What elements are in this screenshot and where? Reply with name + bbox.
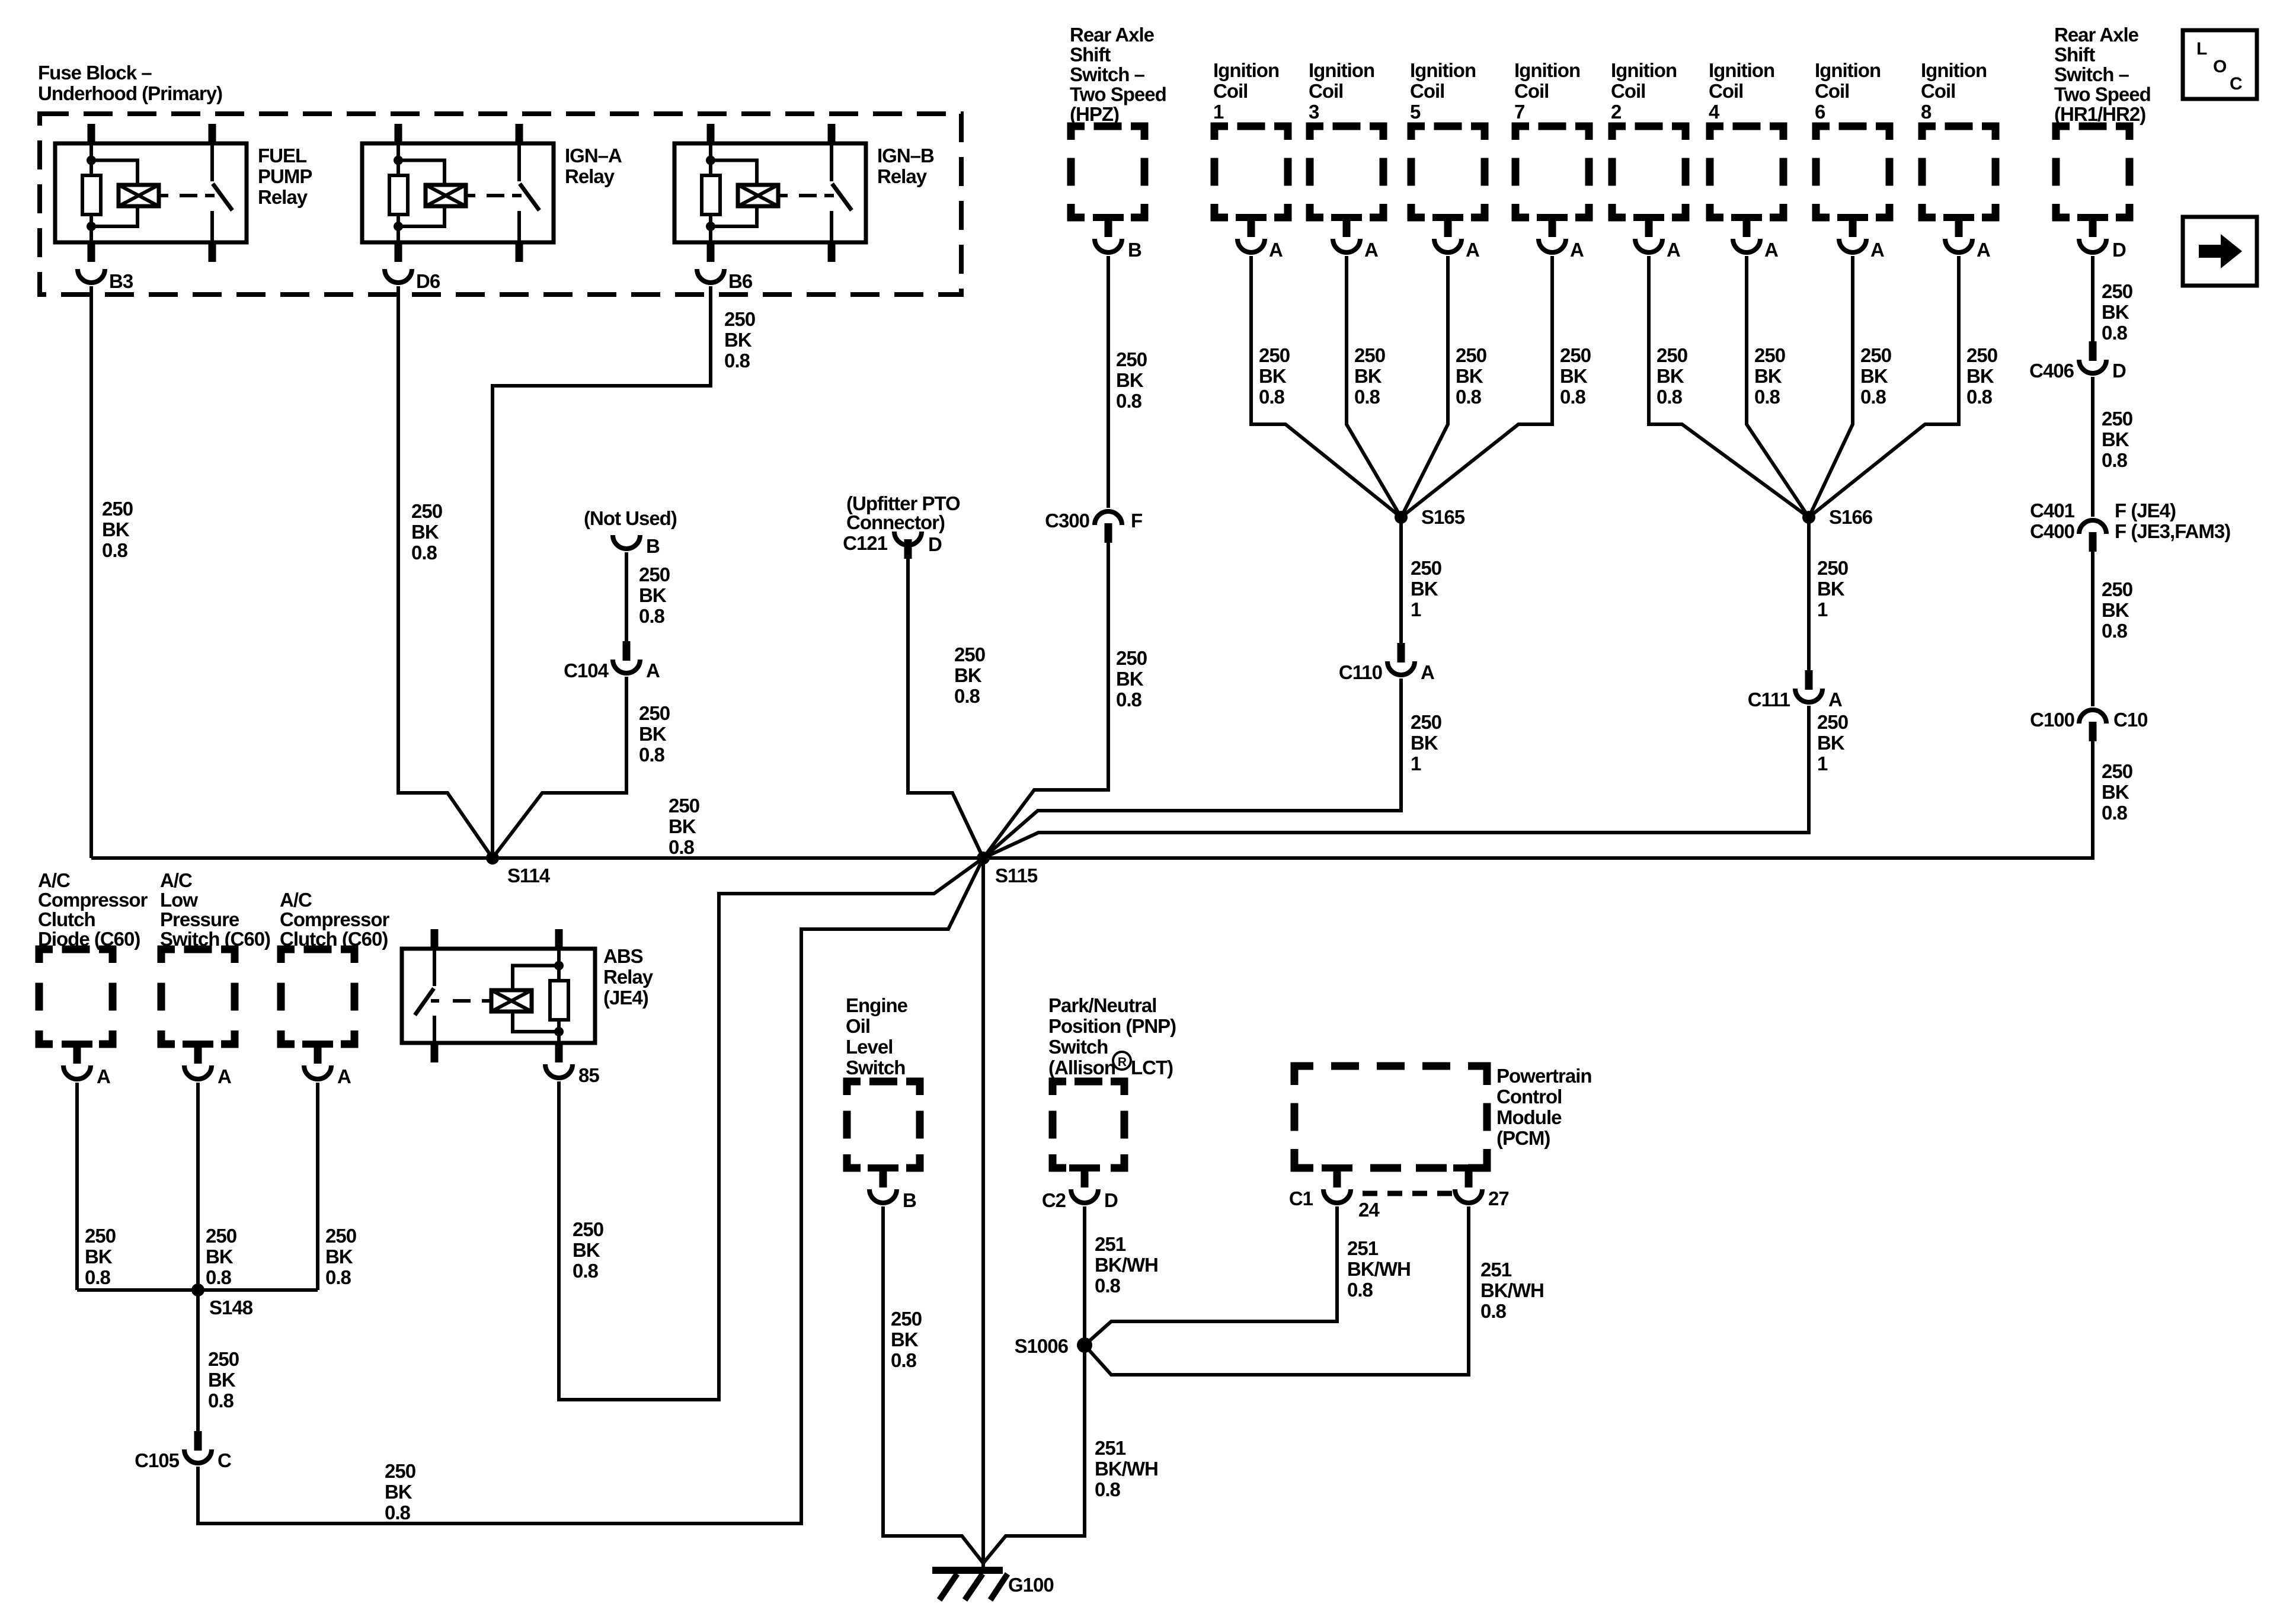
svg-text:BK/WH: BK/WH bbox=[1095, 1254, 1158, 1276]
svg-text:0.8: 0.8 bbox=[2102, 802, 2128, 824]
switch contact ABS relay bbox=[415, 949, 434, 1043]
svg-text:D: D bbox=[928, 533, 942, 555]
svg-text:BK/WH: BK/WH bbox=[1480, 1279, 1544, 1301]
svg-text:Switch –: Switch – bbox=[1070, 63, 1145, 85]
svg-text:Ignition: Ignition bbox=[1921, 59, 1987, 81]
wire HR-D to C406 bbox=[2091, 256, 2094, 341]
relay IGN-B coil branch wire bbox=[709, 143, 712, 175]
connector C1 pin 24 bbox=[1289, 1168, 1380, 1221]
svg-text:250: 250 bbox=[2102, 578, 2132, 600]
svg-text:C104: C104 bbox=[564, 660, 609, 681]
ignition coil 6 box bbox=[1816, 126, 1889, 221]
wire label 250 BK 0.8 (ABS) bbox=[573, 1218, 603, 1282]
svg-text:Relay: Relay bbox=[258, 186, 308, 208]
wire C400 to C100 bbox=[2091, 552, 2094, 706]
svg-text:1: 1 bbox=[1817, 753, 1828, 774]
wire S115 to G100 bbox=[981, 858, 985, 1570]
rear axle shift switch HR1/HR2 box bbox=[2056, 126, 2129, 221]
wire below ABS resistor bbox=[557, 1020, 561, 1043]
svg-text:IGN–A: IGN–A bbox=[565, 145, 622, 167]
svg-text:D: D bbox=[2112, 239, 2126, 261]
svg-text:0.8: 0.8 bbox=[1966, 386, 1993, 408]
svg-text:250: 250 bbox=[954, 644, 985, 665]
relay IGN-A top stub right bbox=[516, 124, 523, 143]
wire label 250 BK 0.8 (S148) bbox=[208, 1348, 239, 1411]
wire coil8 to S166 bbox=[1809, 256, 1959, 517]
svg-text:C1: C1 bbox=[1289, 1188, 1313, 1209]
ignition coil 4 box bbox=[1710, 126, 1783, 221]
svg-text:85: 85 bbox=[578, 1064, 599, 1086]
svg-text:Clutch (C60): Clutch (C60) bbox=[280, 928, 388, 950]
wire label 250 BK 0.8 (coil 5) bbox=[1456, 344, 1486, 408]
svg-text:S1006: S1006 bbox=[1015, 1335, 1069, 1357]
svg-text:0.8: 0.8 bbox=[1354, 386, 1380, 408]
svg-text:250: 250 bbox=[1411, 711, 1441, 733]
fuse block - underhood dashed box bbox=[40, 114, 961, 295]
svg-text:Coil: Coil bbox=[1921, 80, 1955, 102]
svg-text:Oil: Oil bbox=[846, 1015, 870, 1037]
svg-text:Engine: Engine bbox=[846, 994, 908, 1016]
svg-text:0.8: 0.8 bbox=[102, 539, 128, 561]
connector pin A (clutch) bbox=[304, 1044, 351, 1087]
relay IGN-B box bbox=[674, 143, 866, 242]
svg-text:250: 250 bbox=[1411, 557, 1441, 579]
svg-text:S115: S115 bbox=[995, 865, 1038, 886]
connector C100/C10 bbox=[2030, 709, 2147, 741]
svg-text:250: 250 bbox=[385, 1460, 415, 1482]
svg-text:0.8: 0.8 bbox=[639, 744, 665, 766]
wire coil7 to S165 bbox=[1401, 256, 1552, 517]
svg-text:0.8: 0.8 bbox=[954, 685, 980, 707]
svg-text:A: A bbox=[646, 660, 660, 681]
svg-text:250: 250 bbox=[1817, 711, 1848, 733]
svg-text:Position (PNP): Position (PNP) bbox=[1048, 1015, 1176, 1037]
wire label 250 BK 0.8 (coil 8) bbox=[1966, 344, 1997, 408]
svg-text:BK: BK bbox=[411, 521, 439, 543]
svg-text:A: A bbox=[1570, 239, 1584, 261]
svg-text:Ignition: Ignition bbox=[1514, 59, 1580, 81]
svg-text:R: R bbox=[1118, 1055, 1127, 1069]
LOC legend box bbox=[2183, 30, 2257, 99]
rear axle shift switch HPZ box bbox=[1071, 126, 1144, 221]
ignition coil 1 box bbox=[1214, 126, 1288, 221]
svg-text:S114: S114 bbox=[507, 865, 551, 886]
wire bracket IGN-B coil top bbox=[711, 161, 757, 185]
PNP switch label bbox=[1048, 994, 1176, 1078]
svg-text:0.8: 0.8 bbox=[669, 836, 695, 858]
svg-text:250: 250 bbox=[2102, 760, 2132, 782]
wire label 250 BK 1 (C111) bbox=[1817, 711, 1848, 774]
wire B to C104 bbox=[625, 552, 628, 641]
svg-text:(Not Used): (Not Used) bbox=[584, 507, 677, 529]
svg-text:C110: C110 bbox=[1339, 661, 1382, 683]
svg-text:B: B bbox=[646, 535, 660, 557]
switch contact FUEL PUMP relay bbox=[212, 143, 232, 242]
svg-text:S166: S166 bbox=[1829, 506, 1873, 528]
relay IGN-A pin stub bbox=[395, 242, 402, 262]
svg-text:0.8: 0.8 bbox=[411, 542, 437, 564]
svg-text:Coil: Coil bbox=[1309, 80, 1343, 102]
splice S115 bbox=[977, 852, 1038, 886]
svg-text:0.8: 0.8 bbox=[385, 1502, 411, 1523]
svg-text:Switch: Switch bbox=[1048, 1036, 1108, 1058]
wire C121 to S115 bbox=[908, 559, 983, 858]
A/C compressor clutch label bbox=[280, 889, 390, 950]
connector pin B (not used) bbox=[613, 535, 660, 557]
powertrain control module box bbox=[1294, 1066, 1487, 1172]
svg-text:BK: BK bbox=[2102, 428, 2129, 450]
svg-text:Powertrain: Powertrain bbox=[1496, 1065, 1592, 1087]
wire C105 to S115 bbox=[198, 858, 983, 1523]
ignition coil 7 box bbox=[1515, 126, 1589, 221]
svg-text:250: 250 bbox=[1116, 348, 1147, 370]
svg-text:250: 250 bbox=[1456, 344, 1486, 366]
wire label 250 BK 0.8 (C400) bbox=[2102, 578, 2132, 642]
svg-text:C100: C100 bbox=[2030, 709, 2074, 731]
wire label 250 BK 0.8 (coil 4) bbox=[1754, 344, 1785, 408]
wire label 251 BK/WH 0.8 (pin24) bbox=[1347, 1237, 1411, 1301]
svg-text:0.8: 0.8 bbox=[1259, 386, 1285, 408]
ignition coil 2 label bbox=[1611, 59, 1677, 123]
svg-text:250: 250 bbox=[891, 1308, 922, 1330]
wire label 250 BK 0.8 (B3) bbox=[102, 498, 133, 561]
svg-text:Ignition: Ignition bbox=[1213, 59, 1279, 81]
connector pin A (coil 7) bbox=[1539, 217, 1584, 261]
wire coil6 to S166 bbox=[1809, 256, 1853, 517]
svg-text:BK: BK bbox=[639, 584, 667, 606]
ignition coil 6 label bbox=[1815, 59, 1881, 123]
wire pin24 to S1006 bbox=[1085, 1206, 1337, 1345]
svg-text:Ignition: Ignition bbox=[1309, 59, 1374, 81]
svg-text:D6: D6 bbox=[416, 270, 440, 292]
svg-text:Shift: Shift bbox=[2054, 44, 2095, 66]
svg-text:BK/WH: BK/WH bbox=[1095, 1458, 1158, 1480]
svg-text:BK: BK bbox=[206, 1246, 234, 1267]
connector C406 bbox=[2029, 341, 2126, 382]
wire bracket IGN-B coil bottom bbox=[711, 206, 757, 226]
wire label 250 BK 0.8 (coil 7) bbox=[1560, 344, 1591, 408]
svg-text:Ignition: Ignition bbox=[1709, 59, 1774, 81]
wire S114 to S115 main bus bbox=[91, 856, 983, 860]
svg-text:(JE4): (JE4) bbox=[603, 987, 648, 1009]
svg-text:Level: Level bbox=[846, 1036, 893, 1058]
wire C406 to C400 bbox=[2091, 377, 2094, 517]
ignition coil 8 label bbox=[1921, 59, 1987, 123]
wire 85 to S115 bbox=[559, 858, 983, 1400]
svg-text:A: A bbox=[337, 1065, 351, 1087]
wire label 250 BK 0.8 (coil 6) bbox=[1860, 344, 1891, 408]
svg-text:(HR1/HR2): (HR1/HR2) bbox=[2054, 103, 2145, 125]
svg-text:C406: C406 bbox=[2029, 360, 2074, 382]
svg-text:A: A bbox=[218, 1065, 231, 1087]
connector pin B3 bbox=[78, 269, 133, 292]
connector pin A (coil 8) bbox=[1945, 217, 1990, 261]
svg-text:BK: BK bbox=[1354, 365, 1382, 387]
wire label 250 BK 0.8 (S114-S115) bbox=[669, 795, 699, 858]
svg-text:C: C bbox=[2230, 74, 2242, 94]
svg-text:D: D bbox=[2112, 360, 2126, 382]
svg-text:250: 250 bbox=[208, 1348, 239, 1370]
svg-text:Underhood (Primary): Underhood (Primary) bbox=[38, 82, 222, 104]
wire label 251 BK/WH 0.8 (S1006-G100) bbox=[1095, 1437, 1158, 1500]
A/C compressor clutch box bbox=[281, 949, 354, 1048]
svg-text:BK: BK bbox=[954, 664, 982, 686]
svg-text:0.8: 0.8 bbox=[1095, 1275, 1121, 1297]
wire label 250 BK 0.8 (D6) bbox=[411, 500, 442, 564]
svg-text:BK: BK bbox=[1860, 365, 1888, 387]
label Upfitter PTO Connector bbox=[846, 492, 960, 533]
svg-text:0.8: 0.8 bbox=[1754, 386, 1780, 408]
wire coil4 to S166 bbox=[1747, 256, 1809, 517]
arrow legend box bbox=[2183, 217, 2257, 286]
svg-text:0.8: 0.8 bbox=[1560, 386, 1586, 408]
svg-text:BK: BK bbox=[1817, 732, 1845, 754]
svg-text:250: 250 bbox=[1560, 344, 1591, 366]
dashed actuation link IGN-B bbox=[778, 194, 834, 197]
splice S148 bbox=[191, 1283, 253, 1318]
rear axle shift switch HPZ label bbox=[1070, 24, 1166, 125]
svg-text:0.8: 0.8 bbox=[1456, 386, 1482, 408]
svg-text:Relay: Relay bbox=[877, 165, 928, 187]
wire pin27 to S1006 bbox=[1085, 1206, 1469, 1375]
svg-text:A: A bbox=[1870, 239, 1884, 261]
svg-text:250: 250 bbox=[1354, 344, 1385, 366]
wire label 250 BK 0.8 (HR-D) bbox=[2102, 280, 2132, 344]
svg-text:0.8: 0.8 bbox=[85, 1266, 111, 1288]
svg-text:Switch –: Switch – bbox=[2054, 63, 2129, 85]
connector C2 pin D bbox=[1042, 1168, 1118, 1211]
svg-text:C401: C401 bbox=[2030, 500, 2075, 521]
svg-text:0.8: 0.8 bbox=[1095, 1478, 1121, 1500]
svg-text:BK: BK bbox=[669, 815, 696, 837]
engine oil level switch box bbox=[847, 1081, 920, 1172]
svg-text:A/C: A/C bbox=[38, 869, 70, 891]
svg-text:C121: C121 bbox=[843, 532, 888, 554]
wire C104 to S114 bbox=[493, 677, 626, 858]
resistor inside FUEL PUMP relay bbox=[82, 175, 101, 215]
splice S165 bbox=[1395, 506, 1465, 528]
wire bracket FUEL PUMP coil bottom bbox=[91, 206, 137, 226]
wire C110 to S115 bbox=[983, 678, 1401, 858]
svg-text:D: D bbox=[1104, 1189, 1118, 1211]
svg-text:BK: BK bbox=[1657, 365, 1684, 387]
svg-text:Rear Axle: Rear Axle bbox=[1070, 24, 1155, 46]
svg-text:250: 250 bbox=[1116, 647, 1147, 669]
svg-text:F (JE4): F (JE4) bbox=[2115, 500, 2176, 521]
wire label 250 BK 0.8 (B-C104) bbox=[639, 564, 670, 627]
svg-text:A/C: A/C bbox=[280, 889, 312, 911]
svg-text:Park/Neutral: Park/Neutral bbox=[1048, 994, 1156, 1016]
svg-text:0.8: 0.8 bbox=[639, 605, 665, 627]
svg-text:Switch (C60): Switch (C60) bbox=[160, 928, 270, 950]
wire label 250 BK 0.8 (coil 3) bbox=[1354, 344, 1385, 408]
wire bracket ABS coil top bbox=[513, 966, 559, 991]
junction dot IGN-A bottom bbox=[394, 222, 403, 231]
svg-text:F: F bbox=[1131, 510, 1142, 532]
wire label 250 BK 0.8 (C104-S114) bbox=[639, 702, 670, 766]
svg-text:250: 250 bbox=[206, 1225, 236, 1247]
svg-text:Coil: Coil bbox=[1410, 80, 1444, 102]
svg-text:(Allison: (Allison bbox=[1048, 1057, 1115, 1078]
ABS relay label bbox=[603, 945, 654, 1009]
svg-text:2: 2 bbox=[1611, 101, 1622, 123]
connector pin B6 bbox=[697, 269, 753, 292]
svg-text:A: A bbox=[97, 1065, 110, 1087]
svg-text:250: 250 bbox=[1754, 344, 1785, 366]
svg-text:251: 251 bbox=[1095, 1437, 1126, 1459]
relay IGN-A label bbox=[565, 145, 622, 187]
svg-text:C2: C2 bbox=[1042, 1189, 1066, 1211]
wire label 250 BK 1 (C110) bbox=[1411, 711, 1441, 774]
wire B6 to S114 bbox=[493, 286, 711, 858]
svg-text:Switch: Switch bbox=[846, 1057, 905, 1078]
svg-text:S165: S165 bbox=[1421, 506, 1465, 528]
svg-text:BK: BK bbox=[1456, 365, 1483, 387]
svg-text:1: 1 bbox=[1411, 598, 1421, 620]
engine oil level switch label bbox=[846, 994, 908, 1078]
svg-text:Coil: Coil bbox=[1611, 80, 1645, 102]
wire C300 to S115 bbox=[983, 543, 1108, 858]
junction dot ABS top bbox=[554, 961, 564, 971]
svg-text:1: 1 bbox=[1817, 598, 1828, 620]
wire label 250 BK 0.8 (B6) bbox=[724, 308, 755, 372]
dashed actuation link ABS bbox=[431, 999, 491, 1003]
svg-text:0.8: 0.8 bbox=[891, 1349, 917, 1371]
A/C low pressure switch box bbox=[161, 949, 235, 1048]
connector pin A (coil 1) bbox=[1237, 217, 1283, 261]
wire label 250 BK 1 (S166) bbox=[1817, 557, 1848, 620]
svg-text:Coil: Coil bbox=[1815, 80, 1849, 102]
svg-text:A/C: A/C bbox=[160, 869, 192, 891]
svg-text:BK: BK bbox=[2102, 781, 2129, 803]
wire coil3 to S165 bbox=[1347, 256, 1401, 517]
wire bracket ABS coil bottom bbox=[513, 1012, 559, 1032]
svg-text:BK: BK bbox=[1817, 578, 1845, 600]
svg-text:250: 250 bbox=[1966, 344, 1997, 366]
connector pin A (diode) bbox=[63, 1044, 110, 1087]
svg-text:8: 8 bbox=[1921, 101, 1932, 123]
relay FUEL PUMP box bbox=[55, 143, 247, 242]
wire bracket IGN-A coil top bbox=[398, 161, 445, 185]
ignition coil 4 label bbox=[1709, 59, 1774, 123]
relay IGN-B top stub left bbox=[707, 124, 715, 143]
coil of ABS relay bbox=[491, 990, 532, 1012]
connector pin A (coil 5) bbox=[1434, 217, 1479, 261]
svg-text:0.8: 0.8 bbox=[1480, 1300, 1507, 1322]
svg-text:27: 27 bbox=[1488, 1188, 1509, 1209]
svg-text:251: 251 bbox=[1347, 1237, 1379, 1259]
coil of IGN-A relay bbox=[426, 185, 466, 206]
svg-text:Two Speed: Two Speed bbox=[1070, 84, 1166, 105]
connector pin A (coil 4) bbox=[1733, 217, 1778, 261]
svg-text:C: C bbox=[218, 1449, 231, 1471]
svg-text:Compressor: Compressor bbox=[280, 908, 390, 930]
svg-text:0.8: 0.8 bbox=[1116, 689, 1142, 710]
svg-text:250: 250 bbox=[85, 1225, 116, 1247]
connector C110 bbox=[1339, 643, 1434, 683]
svg-text:BK: BK bbox=[208, 1369, 236, 1391]
junction dot IGN-B bottom bbox=[706, 222, 715, 231]
svg-text:250: 250 bbox=[1259, 344, 1290, 366]
svg-text:250: 250 bbox=[102, 498, 133, 520]
wire label 250 BK 0.8 (diode) bbox=[85, 1225, 116, 1288]
relay FUEL PUMP top stub left bbox=[88, 124, 95, 143]
svg-text:BK: BK bbox=[85, 1246, 113, 1267]
svg-text:F (JE3,FAM3): F (JE3,FAM3) bbox=[2115, 520, 2230, 542]
svg-text:IGN–B: IGN–B bbox=[877, 145, 934, 167]
svg-text:0.8: 0.8 bbox=[2102, 449, 2128, 471]
svg-text:O: O bbox=[2213, 57, 2227, 76]
junction dot IGN-B top bbox=[706, 156, 715, 165]
connector C105 bbox=[135, 1431, 231, 1471]
powertrain control module label bbox=[1496, 1065, 1592, 1149]
svg-text:Coil: Coil bbox=[1213, 80, 1248, 102]
wire S166 to C111 bbox=[1807, 517, 1811, 670]
dashed actuation link FUEL PUMP bbox=[159, 194, 215, 197]
svg-text:Relay: Relay bbox=[603, 966, 654, 988]
junction dot FUEL PUMP top bbox=[87, 156, 96, 165]
svg-text:0.8: 0.8 bbox=[325, 1266, 351, 1288]
svg-text:0.8: 0.8 bbox=[1657, 386, 1683, 408]
wire clutch-A to S148 bbox=[316, 1083, 319, 1290]
wire label 250 BK 0.8 (C406) bbox=[2102, 408, 2132, 471]
svg-text:0.8: 0.8 bbox=[206, 1266, 232, 1288]
svg-text:A: A bbox=[1364, 239, 1378, 261]
splice S114 bbox=[486, 852, 551, 886]
relay IGN-B label bbox=[877, 145, 934, 187]
relay FUEL PUMP pin stub bbox=[88, 242, 95, 262]
svg-text:A: A bbox=[1977, 239, 1990, 261]
svg-text:FUEL: FUEL bbox=[258, 145, 307, 167]
resistor inside ABS relay bbox=[550, 981, 568, 1020]
svg-text:C400: C400 bbox=[2030, 520, 2074, 542]
resistor inside IGN-A relay bbox=[389, 175, 408, 215]
relay IGN-A box bbox=[362, 143, 554, 242]
wire lowpressure-A to S148 bbox=[196, 1083, 200, 1290]
svg-text:0.8: 0.8 bbox=[2102, 620, 2128, 642]
svg-text:Ignition: Ignition bbox=[1611, 59, 1677, 81]
wire label 250 BK 0.8 (C105) bbox=[385, 1460, 415, 1523]
wire C100 to S115 bus bbox=[983, 741, 2093, 858]
svg-text:BK: BK bbox=[891, 1329, 919, 1350]
ABS relay bottom stub left bbox=[431, 1043, 439, 1062]
svg-text:0.8: 0.8 bbox=[208, 1390, 234, 1411]
wire label 250 BK 1 (S165) bbox=[1411, 557, 1441, 620]
relay IGN-A coil branch wire bbox=[396, 143, 400, 175]
svg-text:A: A bbox=[1667, 239, 1680, 261]
svg-text:Compressor: Compressor bbox=[38, 889, 148, 911]
svg-text:BK: BK bbox=[2102, 301, 2129, 323]
svg-text:BK/WH: BK/WH bbox=[1347, 1258, 1411, 1280]
svg-text:0.8: 0.8 bbox=[573, 1260, 599, 1282]
wire S148 bus bbox=[77, 1288, 318, 1292]
ignition coil 5 label bbox=[1410, 59, 1476, 123]
ignition coil 2 box bbox=[1612, 126, 1686, 221]
svg-text:G100: G100 bbox=[1008, 1574, 1054, 1596]
wire label 250 BK 0.8 (coil 2) bbox=[1657, 344, 1687, 408]
svg-text:251: 251 bbox=[1095, 1233, 1126, 1255]
ignition coil 5 box bbox=[1411, 126, 1485, 221]
wire C111 to S115 bbox=[983, 706, 1809, 858]
PNP switch box bbox=[1053, 1081, 1124, 1172]
label (Not Used) bbox=[584, 507, 677, 529]
switch contact IGN-A relay bbox=[519, 143, 539, 242]
switch contact IGN-B relay bbox=[832, 143, 852, 242]
svg-text:BK: BK bbox=[1966, 365, 1994, 387]
wire label 250 BK 0.8 (low pressure) bbox=[206, 1225, 236, 1288]
svg-text:4: 4 bbox=[1709, 101, 1720, 123]
svg-text:Fuse Block –: Fuse Block – bbox=[38, 62, 152, 84]
